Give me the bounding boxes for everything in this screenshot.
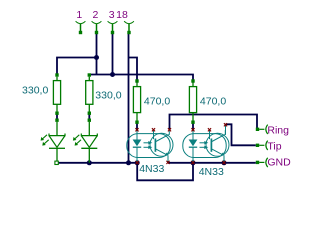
opto U2 anode pin mark <box>191 128 194 131</box>
pin 18 connector <box>124 21 134 34</box>
pin 3 connector <box>108 21 118 34</box>
resistor R2 330,0 <box>86 73 93 115</box>
opto U1 cathode pin mark <box>136 161 139 164</box>
node pin3/L2 junction <box>110 72 115 77</box>
svg-text:330,0: 330,0 <box>95 89 121 101</box>
svg-text:GND: GND <box>267 156 291 168</box>
opto U2 collector pin mark <box>224 123 227 126</box>
svg-text:2: 2 <box>92 9 98 21</box>
node pin2/L1 junction <box>94 55 99 60</box>
opto U2 collector pin extension <box>225 124 227 134</box>
wire L2 horizontal to R4 <box>89 75 193 83</box>
opto U2 body <box>183 130 229 162</box>
svg-text:1: 1 <box>76 9 82 21</box>
wire pin18 column <box>128 34 130 163</box>
wire bottom rail A <box>57 162 137 164</box>
LED D1 bottom open square <box>55 161 58 164</box>
node pin18 bottom junction <box>126 160 131 165</box>
opto U1 body <box>127 130 173 162</box>
wire opto1 collector to Ring <box>170 115 258 131</box>
wire pin18 branch to R3 <box>129 58 138 83</box>
opto U1 anode pin mark <box>135 128 138 131</box>
node opto1 cathode junction <box>135 160 140 165</box>
wire GND rail B <box>168 162 256 164</box>
svg-text:470,0: 470,0 <box>144 96 170 108</box>
opto U2 base pin mark <box>208 128 211 131</box>
svg-text:470,0: 470,0 <box>200 96 226 108</box>
wire cathode link <box>137 163 193 181</box>
svg-text:Tip: Tip <box>267 141 281 153</box>
opto U1 collector pin mark <box>168 128 171 131</box>
resistor R4 470,0 <box>189 79 196 124</box>
wire R3-opto1 anode stub <box>136 122 138 130</box>
node LED2 bottom junction <box>87 160 92 165</box>
connector GND pin <box>256 158 268 167</box>
LED D1 <box>41 119 65 163</box>
wire opto2 collector to Tip <box>226 124 256 145</box>
svg-text:18: 18 <box>116 9 128 21</box>
wire pin2 column <box>96 34 98 75</box>
wire R1-LED1 stub <box>56 113 58 120</box>
node opto2 emitter junction <box>222 160 227 165</box>
svg-text:4N33: 4N33 <box>139 163 164 175</box>
node opto2 cathode junction <box>191 160 196 165</box>
connector Tip pin <box>256 141 268 150</box>
connector Ring pin <box>256 125 268 134</box>
opto U1 base pin mark <box>152 128 155 131</box>
resistor R3 470,0 <box>133 79 140 124</box>
LED D2 <box>73 119 97 163</box>
opto U2 cathode pin mark <box>191 161 194 164</box>
wire pin2 to R1 <box>57 58 97 75</box>
svg-text:4N33: 4N33 <box>199 166 224 178</box>
pin 1 connector <box>76 21 86 34</box>
resistor R1 330,0 <box>53 73 60 115</box>
wire R4-opto2 anode stub <box>192 122 194 130</box>
pin 2 connector <box>92 21 102 34</box>
opto U2 emitter pin mark <box>222 161 225 164</box>
opto U1 emitter pin mark <box>166 161 169 164</box>
svg-text:330,0: 330,0 <box>22 85 48 97</box>
svg-text:Ring: Ring <box>267 125 289 137</box>
svg-text:3: 3 <box>109 9 115 21</box>
wire pin3 column <box>112 34 114 75</box>
wire R2-LED2 stub <box>88 113 90 120</box>
